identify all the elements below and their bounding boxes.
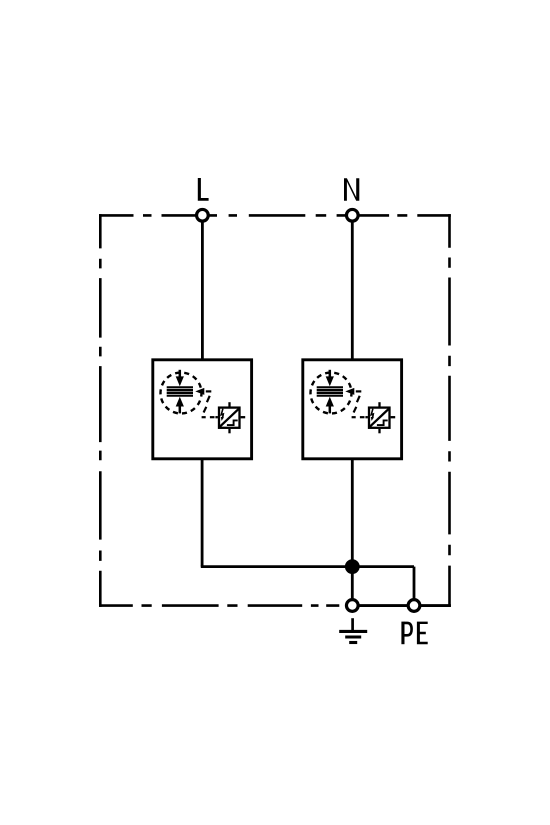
wire ground terminal to PE terminal	[352, 604, 414, 607]
SPD module 1 varistor box	[219, 408, 240, 428]
SPD module 1 (L)	[153, 360, 252, 459]
SPD module 1 spark gap electrodes	[167, 387, 193, 395]
wire left SPD module to bottom horizontal	[201, 459, 204, 567]
SPD module 2 varistor box	[369, 408, 390, 428]
SPD module 2 (N)	[303, 360, 402, 459]
SPD module 1 varistor diagonal	[219, 408, 239, 427]
SPD module 1 varistor ticks	[215, 402, 245, 433]
SPD module 1 trigger arrow	[195, 388, 204, 395]
terminal ground	[346, 600, 358, 612]
SPD module 1 spark gap trigger circle (dashed)	[161, 373, 202, 414]
SPD module 1 bottom arrow	[176, 397, 184, 414]
wire L terminal to left SPD module	[201, 215, 204, 359]
SPD module 2 varistor diagonal	[369, 408, 389, 427]
enclosure dashed border bottom	[99, 604, 451, 607]
SPD module 2 box	[303, 360, 402, 459]
wire N terminal to right SPD module	[351, 215, 354, 359]
SPD module 2 top arrow	[326, 370, 334, 386]
terminal PE	[408, 600, 420, 612]
label PE	[401, 622, 427, 645]
wire bottom horizontal run	[201, 565, 414, 568]
SPD module 1 varistor step curve	[227, 420, 238, 425]
SPD module 2 varistor lightning bolt	[371, 409, 374, 421]
junction dot	[345, 559, 360, 574]
SPD module 2 trigger dashed link	[352, 391, 365, 417]
label L	[198, 178, 209, 201]
SPD module 2 spark gap electrodes	[317, 387, 343, 395]
wire junction to PE riser	[413, 567, 416, 606]
SPD module 2 varistor step curve	[377, 420, 388, 425]
SPD module 1 trigger dashed link	[202, 391, 215, 417]
wire right SPD module to ground terminal	[351, 459, 354, 606]
SPD module 2 bottom arrow	[326, 397, 334, 414]
terminal N	[346, 209, 358, 221]
SPD module 1 top arrow	[176, 370, 184, 386]
ground symbol	[339, 618, 367, 642]
SPD module 2 varistor ticks	[365, 402, 395, 433]
terminal L	[197, 209, 209, 221]
label N	[344, 178, 359, 201]
SPD module 2 trigger arrow	[345, 388, 354, 395]
SPD module 1 varistor lightning bolt	[221, 409, 224, 421]
enclosure dashed border top	[99, 214, 451, 217]
SPD module 1 box	[153, 360, 252, 459]
SPD module 2 spark gap trigger circle (dashed)	[311, 373, 352, 414]
wire PE terminal to border corner	[414, 604, 451, 607]
enclosure dashed border right	[448, 214, 451, 607]
enclosure dashed border left	[99, 214, 102, 607]
